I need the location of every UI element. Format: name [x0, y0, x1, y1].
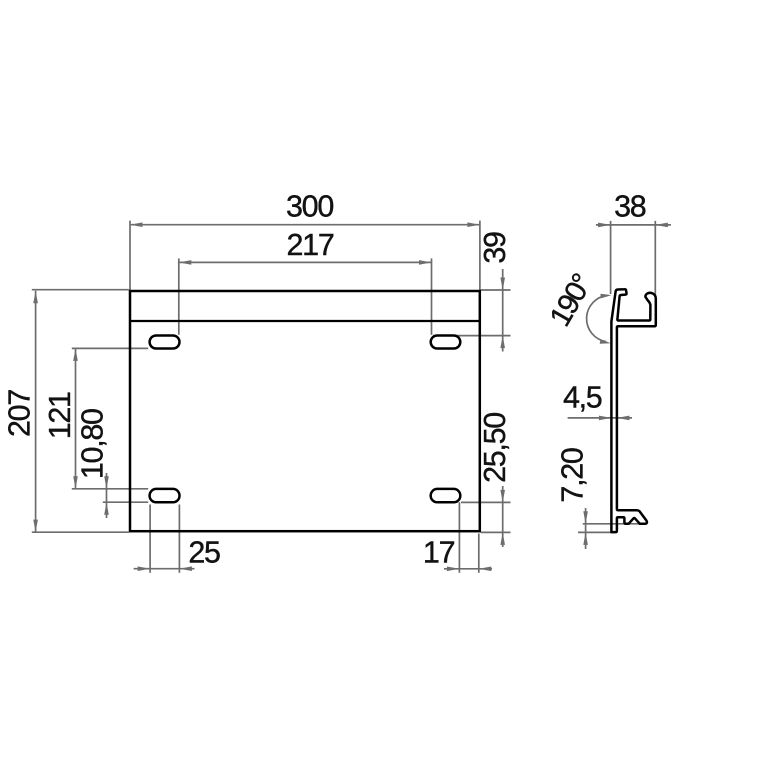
arrow 38 left (outside) [598, 223, 611, 228]
profile cross-section [611, 289, 655, 532]
arrow 7,20 top (outside) [583, 511, 588, 524]
arrow 10,80 bottom (outside) [104, 502, 109, 515]
svg-text:300: 300 [286, 190, 333, 224]
dim 38 ext right [654, 221, 656, 299]
arc arrow top [600, 294, 611, 299]
plate inner fold line [130, 320, 480, 322]
dim 38 line [596, 224, 671, 226]
slot bottom-right [431, 489, 461, 502]
svg-text:25,50: 25,50 [478, 413, 512, 483]
dim 10,80 line [106, 473, 108, 518]
dim 17 ext right [478, 534, 480, 573]
svg-text:7,20: 7,20 [556, 448, 590, 502]
arrow 17 right (outside) [479, 567, 492, 572]
arc arrow bottom [600, 339, 611, 344]
dim 7,20 ext top [583, 523, 640, 525]
dim 25,50 line [502, 486, 504, 547]
dim 39 ext top [481, 289, 511, 291]
dim 207 line [35, 291, 37, 532]
dim 217 line [179, 261, 432, 263]
svg-text:17: 17 [423, 536, 455, 570]
slot bottom-left [150, 489, 180, 502]
dim 300 line [130, 224, 480, 226]
arrow 4,5 left (outside) [599, 416, 612, 421]
dim 7,20 ext bottom [578, 531, 617, 533]
arrow 121 top [73, 348, 78, 361]
dim 25 ext right [178, 505, 180, 573]
dim 121/10,80 shared ext [72, 488, 148, 490]
dim 217 ext right [431, 258, 433, 334]
arrow 38 right (outside) [655, 223, 668, 228]
dim 300 ext right [479, 221, 481, 291]
dim 217 ext left [178, 258, 180, 334]
arrow 25 left (outside) [138, 566, 151, 571]
slot top-left [150, 336, 180, 349]
angle arc 190 [587, 295, 608, 341]
svg-text:217: 217 [287, 228, 334, 262]
dim 207 ext top [32, 289, 129, 291]
dim 25,50 ext bottom [481, 531, 511, 533]
arrow 7,20 bottom (outside) [583, 532, 588, 545]
svg-text:38: 38 [614, 190, 646, 224]
svg-text:39: 39 [478, 232, 512, 264]
dim 121 line [75, 348, 77, 488]
arrow 25 right (outside) [179, 566, 192, 571]
arrow 17 left (outside) [447, 567, 460, 572]
dim 25,50 ext top [461, 501, 511, 503]
dim 300 ext left [129, 221, 131, 291]
arrow 4,5 right (outside) [617, 416, 630, 421]
arrow 121 bottom [73, 476, 78, 489]
dim 17 ext left [458, 502, 460, 573]
svg-text:121: 121 [43, 392, 77, 439]
dim 39 line [502, 269, 504, 352]
svg-text:207: 207 [3, 390, 37, 437]
dim 17 line [444, 568, 492, 570]
svg-text:25: 25 [188, 536, 220, 570]
svg-text:4,5: 4,5 [563, 381, 602, 415]
dim 25 ext left [149, 505, 151, 573]
plate outline [130, 291, 480, 531]
dim 7,20 line [585, 508, 587, 549]
arrow 10,80 top (outside) [104, 476, 109, 489]
arrow 300 left [130, 222, 143, 227]
arrow 39 bottom (outside, points up) [500, 336, 505, 349]
arrow 207 top [33, 291, 38, 304]
svg-text:10,80: 10,80 [76, 409, 110, 479]
arrow 25,50 top (outside) [500, 490, 505, 503]
dim 39 ext bottom [433, 335, 511, 337]
dim 121 ext top [72, 347, 148, 349]
dim 4,5 line [568, 417, 632, 419]
arrow 217 right [419, 260, 432, 265]
arrow 207 bottom [33, 520, 38, 533]
arrow 300 right [467, 222, 480, 227]
front view dimension arrowheads [33, 222, 505, 571]
arrow 25,50 bottom (outside) [500, 532, 505, 545]
dim 207 ext bottom [32, 531, 129, 533]
arrow 39 top (outside, points down) [500, 278, 505, 291]
arrow 217 left [179, 260, 192, 265]
dim 25 line [134, 568, 195, 570]
dim 10,80 ext bottom [103, 501, 148, 503]
slot top-right [431, 336, 461, 349]
dim 38 ext left [610, 221, 612, 294]
